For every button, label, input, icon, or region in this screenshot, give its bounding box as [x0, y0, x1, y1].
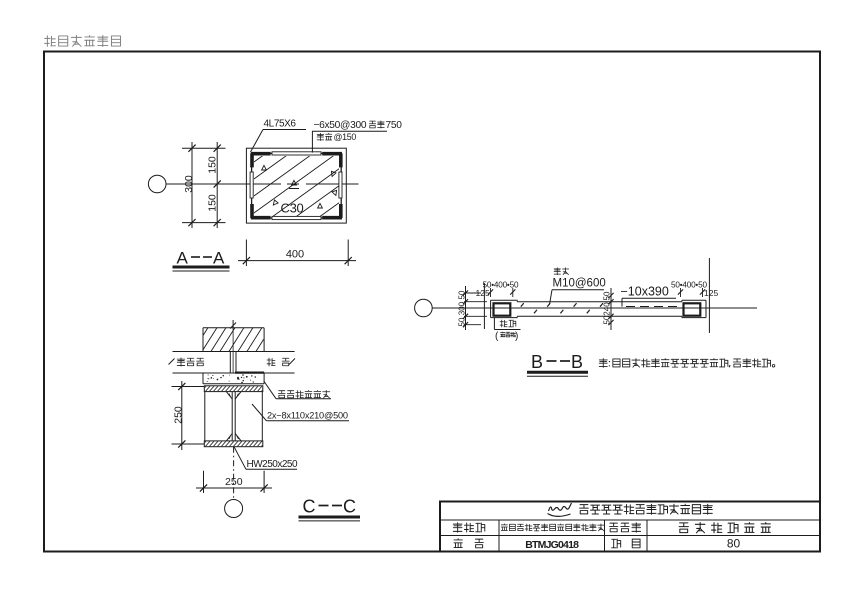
svg-text:50: 50 [458, 290, 467, 299]
drawing sheet border frame [44, 52, 820, 552]
rotated dim text 50/240/50 [603, 291, 612, 324]
section B-B grid bubble [415, 299, 433, 317]
C-C vertical dim 250 line [178, 381, 185, 450]
leader for M10@600 [550, 290, 605, 305]
label 加密@150 [317, 132, 356, 142]
svg-text:C: C [303, 497, 316, 517]
web bottom fillet flares [227, 434, 241, 441]
title block vertical dividers [499, 520, 647, 552]
aggregate triangles in A-A concrete [262, 165, 339, 208]
leader line for 4L75X6 [251, 130, 307, 153]
svg-text:300: 300 [183, 175, 195, 193]
svg-text:50: 50 [458, 317, 467, 326]
svg-text:4L75X6: 4L75X6 [264, 119, 297, 130]
section B-B horizontal centerline [432, 307, 757, 309]
cell label 小标题 [610, 523, 641, 532]
svg-text:50: 50 [603, 291, 612, 300]
header watermark text [45, 35, 121, 46]
mortar stipple dots [207, 374, 256, 383]
hidden plate dashed line in band [626, 306, 680, 308]
svg-text:150: 150 [207, 156, 219, 174]
B-B left dim extension lines [464, 293, 487, 325]
leader for -10x390 [622, 298, 676, 306]
section A-A dimension extension lines [182, 148, 226, 222]
section A-A outer concrete outline [246, 148, 346, 223]
title C--C underline [299, 517, 361, 521]
expansion bolt tick marks [521, 303, 603, 313]
section A-A vertical dimension line 300 [188, 142, 195, 228]
C-C grid bubble [225, 500, 243, 518]
H-beam web double line [232, 392, 235, 441]
H-beam top flange [204, 386, 262, 392]
cell label 编号 [454, 539, 483, 548]
svg-text:BTMJG0418: BTMJG0418 [525, 539, 579, 551]
title C--C [303, 497, 357, 517]
section A-A grid bubble [148, 175, 166, 193]
svg-text:B: B [571, 352, 583, 372]
H-beam bottom flange [204, 441, 262, 447]
B-B note text [599, 359, 775, 368]
weld label leader box [494, 318, 520, 330]
leader shelf for -6x50@300 [312, 130, 387, 132]
side batten plate lines [205, 392, 262, 441]
B-B left end steel plate (thick) [494, 303, 511, 315]
cell subtitle 具体做法详图 [679, 522, 770, 532]
weld label (other side) [495, 331, 518, 342]
title block horizontal dividers [440, 520, 820, 536]
batten plate double-line marks on edge middles [250, 152, 342, 220]
section A-A inner steel cage rectangle [252, 153, 342, 218]
web top fillet flares [227, 392, 241, 399]
C-C bottom dim 250 line [196, 484, 272, 491]
label epoxy mortar leveling [278, 390, 329, 398]
svg-text:B: B [531, 352, 543, 372]
svg-text:): ) [515, 331, 518, 342]
cell label 章节名 [453, 523, 484, 532]
label cast-in-place slab [177, 358, 204, 366]
svg-text:250: 250 [173, 406, 185, 424]
section A-A horizontal centerline [166, 183, 359, 185]
C-C dashed centerline below beam [233, 447, 235, 498]
leader for batten plates [252, 404, 349, 421]
dimension 400 line [238, 257, 356, 264]
leader epoxy mortar [264, 382, 331, 399]
C-C centerline above wall [232, 320, 234, 329]
svg-text:A: A [177, 249, 189, 268]
svg-text:50•400•50: 50•400•50 [671, 281, 707, 290]
title B--B [531, 352, 583, 372]
rotated dim text 50/300/50 [458, 290, 467, 326]
B-B top dim ticks left [488, 288, 516, 297]
leader for HW250x250 [234, 447, 297, 470]
cell label 页码 [612, 539, 640, 548]
C-C slab band lines [173, 352, 295, 374]
svg-text:A: A [213, 249, 225, 268]
svg-text:−10x390: −10x390 [621, 285, 669, 299]
svg-text:125: 125 [476, 288, 490, 298]
B-B beam band outline [491, 300, 706, 317]
title block outer border [440, 502, 820, 552]
B-B right end steel plate (thick) [684, 303, 701, 315]
B-B left grid line vertical [483, 283, 485, 329]
C-C slab joint gap verticals [230, 329, 236, 373]
svg-text:−6x50@300: −6x50@300 [314, 120, 367, 131]
mortar leveling layer [203, 373, 264, 384]
corner angle steel plates (4L75X6) thick marks [251, 153, 342, 218]
svg-text:M10@600: M10@600 [553, 278, 606, 290]
section A-A vertical dimension line 150/150 [214, 142, 221, 228]
svg-text:400: 400 [286, 249, 304, 261]
svg-text:@150: @150 [334, 132, 357, 142]
label -6x50@300 with CJK and 750 [314, 120, 403, 131]
svg-text:125: 125 [704, 288, 718, 298]
svg-text:750: 750 [386, 120, 403, 131]
svg-text:C: C [343, 497, 356, 517]
B-B left vertical dim line 50/300/50 [463, 286, 468, 330]
B-B right grid line vertical [708, 258, 710, 333]
svg-text:HW250x250: HW250x250 [247, 459, 298, 470]
label bolt CJK (peng shuan) [554, 268, 569, 275]
company logo squiggle [548, 503, 572, 516]
svg-text:2x−8x110x210@500: 2x−8x110x210@500 [267, 411, 348, 421]
C-C vertical dim 250 extension lines [172, 387, 205, 445]
svg-text:150: 150 [207, 194, 219, 212]
slab end ticks [169, 359, 296, 365]
weld label 焊接 [500, 320, 516, 327]
dimension 400 extension lines [246, 240, 348, 267]
C-C wall hatch block [203, 328, 264, 352]
svg-text:C30: C30 [281, 201, 304, 216]
svg-text:300: 300 [458, 301, 467, 315]
C-C break tick at wall top [230, 323, 236, 329]
svg-text:(: ( [495, 331, 499, 342]
svg-text:50•400•50: 50•400•50 [483, 281, 519, 290]
title A--A [177, 249, 226, 268]
cell project name [501, 524, 604, 531]
leader vertical drop to cage top [311, 131, 313, 152]
B-B middle vertical dim line 50/240/50 [608, 288, 613, 330]
svg-text:240: 240 [603, 302, 612, 316]
company name text [580, 504, 713, 514]
thick slab bottom edge over mortar [235, 372, 264, 374]
small dash under center triangle [289, 188, 299, 190]
C-C bottom dim extension lines [204, 471, 265, 493]
label hollow slab [267, 358, 289, 366]
title B--B underline [527, 372, 588, 376]
svg-text:250: 250 [225, 476, 243, 488]
svg-text:80: 80 [727, 537, 741, 551]
B-B top dim ticks right [678, 288, 705, 297]
title A--A underline [173, 267, 230, 271]
